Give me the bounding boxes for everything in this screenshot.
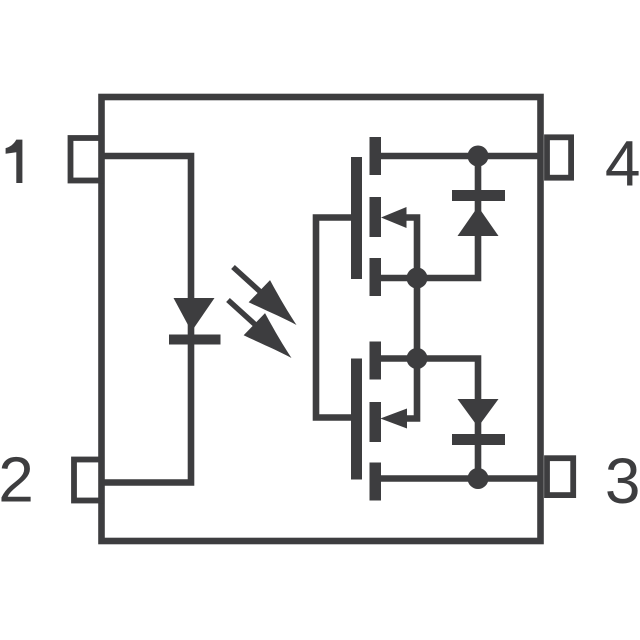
mosfet Q2 source channel bar bbox=[370, 463, 382, 501]
light arrow 2 shaft bbox=[228, 300, 255, 325]
wire drain Q2 and body diode D2 vertical bbox=[375, 359, 478, 479]
junction dot source Q2 / D2 / pin3 bbox=[468, 468, 489, 489]
package outline bbox=[102, 97, 541, 541]
wire body connection vertical bbox=[405, 218, 417, 419]
mosfet Q1 drain channel bar bbox=[370, 137, 382, 175]
junction dot body line / source Q1 bbox=[407, 268, 428, 289]
light arrow 2 head bbox=[244, 313, 302, 370]
wire body diode D1 vertical and source wire of Q1 bbox=[375, 156, 478, 278]
junction dot drain Q2 / body line bbox=[407, 348, 428, 369]
svg-text:4: 4 bbox=[605, 127, 640, 199]
mosfet Q1 source channel bar bbox=[370, 258, 382, 296]
svg-text:2: 2 bbox=[0, 444, 34, 516]
light arrow 1 head bbox=[249, 280, 307, 337]
mosfet Q2 gate bar bbox=[351, 359, 362, 480]
svg-text:3: 3 bbox=[605, 445, 640, 517]
pin 4 square bbox=[547, 137, 571, 177]
wire drain Q1 to pin 4 bbox=[375, 153, 541, 160]
mosfet Q2 drain channel bar bbox=[370, 342, 382, 380]
pin 2 square bbox=[74, 460, 102, 501]
mosfet Q2 body channel bar bbox=[370, 402, 382, 442]
pin 1 square bbox=[71, 138, 102, 181]
light arrow 1 shaft bbox=[233, 267, 260, 292]
diode D1 triangle bbox=[458, 207, 499, 237]
diode D2 triangle bbox=[458, 399, 499, 427]
mosfet Q1 gate bar bbox=[351, 157, 362, 279]
wire gate bus connecting both gates bbox=[316, 218, 351, 418]
junction dot drain Q1 / D1 bbox=[468, 146, 489, 167]
pin label 1 bbox=[6, 140, 23, 183]
mosfet Q1 body arrow bbox=[381, 207, 407, 228]
wire pin1 to LED anode, LED vertical, to pin2 bbox=[102, 156, 192, 483]
pin 3 square bbox=[547, 458, 573, 495]
wire source Q2 to pin 3 bbox=[375, 475, 541, 482]
mosfet Q1 body channel bar bbox=[370, 197, 382, 237]
diode D2 cathode bar bbox=[452, 434, 505, 445]
LED D3 cathode bar bbox=[169, 335, 221, 345]
diode D1 cathode bar bbox=[452, 190, 505, 201]
LED D3 triangle bbox=[174, 298, 215, 332]
mosfet Q2 body arrow bbox=[381, 409, 408, 429]
